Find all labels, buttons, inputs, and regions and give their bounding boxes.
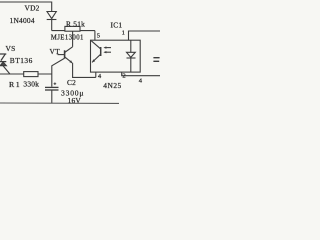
svg-text:330k: 330k <box>23 79 39 88</box>
svg-text:VS: VS <box>6 44 16 53</box>
optocoupler IC1 4N25 box <box>91 40 141 72</box>
svg-text:1N4004: 1N4004 <box>10 16 35 25</box>
wire pin1 lead <box>129 31 161 40</box>
svg-text:R1: R1 <box>9 80 21 89</box>
svg-text:2: 2 <box>122 73 126 80</box>
svg-text:4: 4 <box>98 73 102 80</box>
wire top rail <box>0 2 52 11</box>
wire node A to resistor <box>52 30 95 32</box>
wire pin5 lead <box>94 31 96 41</box>
svg-text:C2: C2 <box>67 78 76 87</box>
svg-text:IC1: IC1 <box>111 21 123 30</box>
resistor R 51k <box>65 26 80 31</box>
transistor phototransistor of IC1 <box>91 41 100 63</box>
wire bottom rail <box>0 102 119 104</box>
diode VD2 <box>47 12 57 31</box>
battery plates right edge <box>153 58 159 62</box>
wire R1 rail <box>0 73 52 75</box>
svg-text:4: 4 <box>139 77 143 84</box>
svg-text:4N25: 4N25 <box>103 81 121 90</box>
LED of IC1 <box>127 40 136 72</box>
svg-text:R 51k: R 51k <box>66 20 85 29</box>
wire triac gate to R1 wire <box>2 65 9 74</box>
svg-text:1: 1 <box>122 30 126 37</box>
svg-text:MJE13001: MJE13001 <box>51 34 84 41</box>
wire base of VT to C2 node <box>52 58 65 86</box>
svg-text:16V: 16V <box>68 96 82 105</box>
transistor VT MJE13001 <box>58 47 73 63</box>
wire pin4 lead <box>95 72 97 77</box>
wire emitter of VT to pin4 <box>73 63 96 78</box>
triac VS BT136 <box>0 54 6 66</box>
resistor R1 330k <box>24 72 38 77</box>
svg-text:BT136: BT136 <box>10 56 33 65</box>
capacitor C2 <box>45 82 59 103</box>
svg-text:VD2: VD2 <box>25 4 40 13</box>
wire collector of VT <box>72 31 74 47</box>
light arrows of optocoupler <box>103 46 111 53</box>
svg-text:5: 5 <box>97 32 101 39</box>
svg-text:VT: VT <box>50 47 61 56</box>
wire pin2 lead to right <box>122 72 160 76</box>
